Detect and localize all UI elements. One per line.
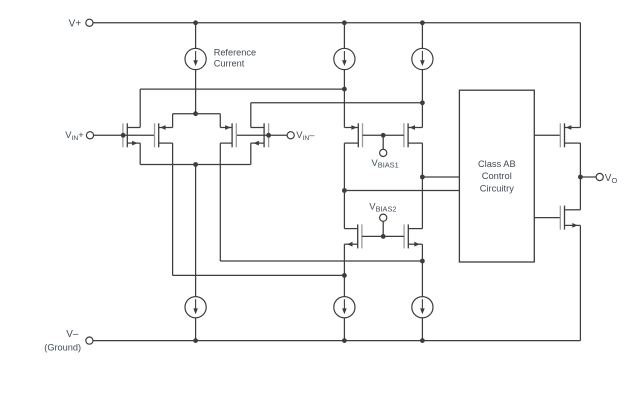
wire NMOS tail down to I4 — [195, 165, 197, 297]
VBIAS2 terminal — [380, 214, 387, 221]
wire M4 drain to cascode node B — [251, 102, 423, 104]
node junction M5-M7 to class AB input 2 — [342, 188, 347, 193]
transistor M10 output NMOS — [560, 206, 580, 230]
svg-text:Class AB: Class AB — [478, 159, 516, 169]
current source I6 — [412, 297, 433, 318]
wire M8 source down to node D — [421, 244, 423, 296]
wire VIN- to gates of M3 M4 — [236, 134, 287, 136]
wire I2 to cascode M5 — [343, 70, 345, 128]
V- (Ground) terminal — [86, 337, 93, 344]
wire VBIAS2 stub — [382, 221, 384, 236]
wire I1 to input tail node — [195, 70, 197, 114]
transistor M6 cascode PMOS — [404, 123, 423, 147]
wire right vertical from top rail to output PMOS source — [579, 23, 581, 128]
wire I4 to bottom rail — [195, 318, 197, 341]
node junction top rail / I3 — [420, 20, 425, 25]
node junction M6-M8 to class AB input 1 — [420, 175, 425, 180]
transistor M8 cascode NMOS — [404, 224, 422, 248]
svg-text:Control: Control — [482, 171, 512, 181]
wire V+ to I1 — [195, 23, 197, 49]
wire M1 drain up — [139, 89, 141, 127]
node junction VIN- at M4 gate — [266, 133, 271, 138]
current source I2 — [334, 48, 355, 69]
VIN+ input terminal — [86, 132, 93, 139]
svg-text:Circuitry: Circuitry — [480, 184, 514, 194]
node junction VBIAS2 — [381, 234, 386, 239]
wire class AB input 1 — [422, 176, 459, 178]
current source I3 — [412, 48, 433, 69]
wire M4 drain up — [250, 103, 252, 128]
node junction top rail / I2 — [342, 20, 347, 25]
wire I3 to cascode M6 — [421, 70, 423, 128]
wire VIN+ to gates of M1 M2 — [94, 134, 155, 136]
wire VBIAS2 gate line — [362, 235, 404, 237]
wire VO — [580, 176, 596, 178]
transistor M2 input PMOS VIN+ — [155, 123, 173, 147]
node junction C: M2 drain / M7 source / I5 — [342, 273, 347, 278]
wire VBIAS1 stub — [382, 135, 384, 149]
node junction bottom rail / I5 — [342, 338, 347, 343]
svg-text:Reference: Reference — [214, 48, 256, 58]
svg-text:V–: V– — [66, 329, 79, 340]
wire PMOS pair tail M2 side — [172, 114, 174, 128]
wire M5 drain to M7 drain — [343, 143, 345, 229]
node junction A: I2 / M1 drain / M5 source — [342, 87, 347, 92]
wire V+ to I3 — [421, 23, 423, 49]
transistor M7 cascode NMOS — [344, 224, 362, 248]
wire M3 drain to node D — [220, 260, 422, 262]
svg-text:(Ground): (Ground) — [44, 342, 81, 352]
wire M2 drain to node C — [173, 274, 345, 276]
wire class AB input 2 — [344, 190, 459, 192]
svg-text:V+: V+ — [69, 18, 82, 29]
node junction VO — [578, 175, 583, 180]
current source I1 reference — [185, 48, 206, 69]
wire top rail V+ — [93, 22, 580, 24]
block U1 Class AB Control Circuitry — [459, 90, 534, 262]
wire M6 drain to M8 drain — [421, 143, 423, 229]
wire M1 drain to cascode node A — [140, 88, 344, 90]
wire class AB to M9 gate — [534, 134, 560, 136]
current source I4 tail sink — [185, 297, 206, 318]
transistor M3 input PMOS VIN- — [220, 123, 236, 147]
wire V+ to I2 — [343, 23, 345, 49]
wire NMOS pair tail M1 side — [139, 143, 141, 164]
node junction NMOS tail / I4 — [193, 162, 198, 167]
wire I6 to bottom rail — [421, 318, 423, 341]
node junction bottom rail / I4 — [193, 338, 198, 343]
VO output terminal — [596, 173, 603, 180]
wire PMOS pair tail M3 side — [219, 114, 221, 128]
V+ supply terminal — [86, 19, 93, 26]
node junction VBIAS1 — [381, 133, 386, 138]
wire NMOS pair tail bottom — [140, 164, 251, 166]
svg-text:Current: Current — [214, 59, 245, 69]
wire VBIAS1 gate line — [363, 134, 404, 136]
transistor M4 input NMOS VIN- — [251, 123, 269, 147]
wire I5 to bottom rail — [343, 318, 345, 341]
transistor M1 input NMOS VIN+ — [123, 123, 140, 147]
wire M2 drain down — [172, 143, 174, 275]
wire class AB to M10 gate — [534, 217, 560, 219]
node junction top rail / reference current — [193, 20, 198, 25]
wire bottom rail V- — [93, 340, 580, 342]
wire PMOS pair tail top — [173, 113, 221, 115]
transistor M9 output PMOS — [560, 123, 580, 147]
node junction bottom rail / I6 — [420, 338, 425, 343]
current source I5 — [334, 297, 355, 318]
node junction D: M3 drain / M8 source / I6 — [420, 259, 425, 264]
VBIAS1 terminal — [380, 149, 387, 156]
wire M9 drain to M10 drain — [579, 143, 581, 210]
VIN- input terminal — [287, 132, 294, 139]
transistor M5 cascode PMOS — [344, 123, 362, 147]
node junction reference current / PMOS tail — [193, 111, 198, 116]
node junction B: I3 / M4 drain / M6 source — [420, 100, 425, 105]
node junction VIN+ at M1 gate — [121, 133, 126, 138]
wire right vertical from bottom rail to output NMOS source — [579, 225, 581, 340]
wire M7 source down to node C — [343, 244, 345, 296]
wire M3 drain down — [219, 143, 221, 261]
wire NMOS pair tail M4 side — [250, 143, 252, 164]
